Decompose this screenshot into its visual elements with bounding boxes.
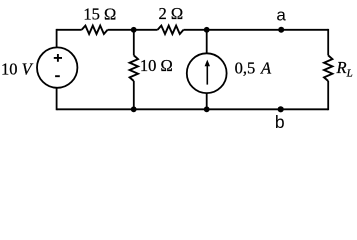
arrow of current source xyxy=(206,65,208,85)
wire: top wire between 15 ohm and 2 ohm xyxy=(108,29,158,31)
junction dot bottom of 10 ohm branch xyxy=(131,106,137,112)
node b dot xyxy=(278,106,284,112)
resistor 10 ohm (vertical zigzag) xyxy=(130,55,138,81)
wire: 10 ohm branch upper stub xyxy=(133,30,135,56)
wire: left branch vertical top stub xyxy=(56,29,58,48)
wire: right branch upper stub xyxy=(327,29,329,56)
plus sign of voltage source xyxy=(54,54,62,62)
current source 0,5 A (circle) xyxy=(187,53,227,93)
node a dot xyxy=(278,27,284,33)
svg-text:0,5 A: 0,5 A xyxy=(235,58,272,77)
svg-text:b: b xyxy=(275,112,285,130)
wire: left branch vertical bottom stub xyxy=(56,88,58,111)
wire: current source lower stub xyxy=(206,93,208,109)
voltage source 10 V (circle) xyxy=(37,47,77,87)
wire: top wire right of 2 ohm to top-right corner xyxy=(184,29,329,31)
wire: right branch lower stub xyxy=(327,81,329,110)
wire: current source upper stub xyxy=(206,30,208,54)
svg-text:10 Ω: 10 Ω xyxy=(140,56,173,75)
junction dot top of 10 ohm branch xyxy=(131,27,137,33)
svg-text:a: a xyxy=(276,6,286,25)
resistor RL (vertical zigzag) xyxy=(324,55,332,81)
svg-text:2 Ω: 2 Ω xyxy=(159,4,184,23)
wire: 10 ohm branch lower stub xyxy=(133,81,135,109)
wire: top wire left segment xyxy=(57,29,82,31)
svg-text:15 Ω: 15 Ω xyxy=(83,4,116,23)
junction dot top of current source branch xyxy=(204,27,210,33)
resistor 15 ohm (zigzag) xyxy=(82,26,108,34)
resistor 2 ohm (zigzag) xyxy=(158,26,184,34)
minus sign of voltage source xyxy=(55,75,60,77)
wire: bottom wire xyxy=(57,108,329,110)
junction dot bottom of current source branch xyxy=(204,106,210,112)
svg-text:10 V: 10 V xyxy=(1,60,34,79)
